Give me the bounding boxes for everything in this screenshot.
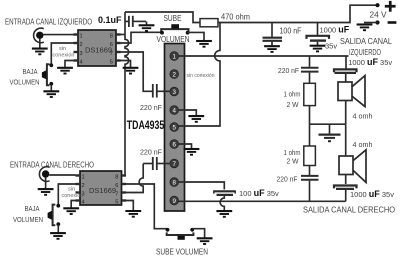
svg-text:0.1uF: 0.1uF xyxy=(98,15,122,25)
wire U2 pin5 to ground xyxy=(116,61,131,68)
wire U2 pin2 to BAJA switch xyxy=(51,43,74,64)
svg-text:ENTRADA CANAL DERECHO: ENTRADA CANAL DERECHO xyxy=(10,161,94,170)
svg-text:6: 6 xyxy=(115,183,118,189)
svg-text:TDA4935: TDA4935 xyxy=(127,120,165,132)
pushbutton SW2 SUBE VOLUMEN (top) xyxy=(160,24,189,34)
wire C1 to ground xyxy=(146,21,148,25)
label - xyxy=(388,21,397,24)
U2 pin numbers right 8 7 6 5 xyxy=(110,34,113,66)
svg-text:5: 5 xyxy=(115,200,118,206)
wire J2 to ground xyxy=(45,178,47,189)
svg-text:4: 4 xyxy=(82,200,85,206)
wire U2 pin4 to ground xyxy=(65,61,74,68)
wire U1 pin4 to ground xyxy=(179,110,197,116)
ground (SW2) xyxy=(196,41,212,47)
svg-text:8: 8 xyxy=(172,179,176,186)
capacitor C3 220 nF (left input) xyxy=(153,84,170,98)
svg-text:1: 1 xyxy=(82,175,85,181)
wire SW3 to ground xyxy=(57,225,59,233)
svg-text:2: 2 xyxy=(80,42,83,48)
wire SW2 to ground xyxy=(188,32,204,40)
svg-text:9: 9 xyxy=(172,198,176,205)
svg-text:DS1669: DS1669 xyxy=(85,48,112,55)
wire U3 pin5 to ground xyxy=(126,201,133,211)
wire LS2 to capacitor C11 xyxy=(345,175,347,185)
wire U1 pin8 to capacitor C9 xyxy=(179,182,225,190)
svg-text:5: 5 xyxy=(110,60,113,66)
ground (C9) xyxy=(216,211,232,217)
wire J1 to DS1 pin1 xyxy=(43,34,74,36)
ground (SW3) xyxy=(50,233,66,239)
ground (C5) xyxy=(310,46,326,52)
svg-text:7: 7 xyxy=(115,192,118,198)
svg-text:SALIDA CANAL DERECHO: SALIDA CANAL DERECHO xyxy=(303,206,395,215)
svg-text:7: 7 xyxy=(110,51,113,57)
U1 pin 7 xyxy=(170,159,179,168)
capacitor C6 220 nF (zobel left) xyxy=(301,56,319,83)
capacitor C5 1000 uF electrolytic xyxy=(307,36,330,41)
pushbutton SW4 SUBE VOLUMEN (bottom) xyxy=(166,228,195,240)
ground (C1) xyxy=(139,25,155,31)
U1 pin 8 xyxy=(170,178,179,187)
capacitor C10 220 nF (zobel right) xyxy=(301,176,319,201)
ground (U3 pin5) xyxy=(125,211,141,217)
svg-text:1000 uF: 1000 uF xyxy=(320,25,350,35)
svg-text:1000 uF 35v: 1000 uF 35v xyxy=(348,57,392,67)
svg-text:2: 2 xyxy=(172,71,176,78)
svg-text:2 W: 2 W xyxy=(287,157,300,166)
svg-text:7: 7 xyxy=(172,161,176,168)
ground (U3 pin4) xyxy=(63,208,79,214)
ground (SW1) xyxy=(43,91,59,97)
svg-text:220 nF: 220 nF xyxy=(277,175,298,184)
wire U3 pin2 to BAJA switch xyxy=(58,184,75,205)
wire node to ground xyxy=(329,124,331,134)
wire +24V branch to U1 pin5 with hop xyxy=(179,23,221,127)
digital potentiometer U2 DS1669 (top) xyxy=(74,30,121,66)
wire node down to speaker LS2 xyxy=(345,124,347,156)
svg-text:SUBE: SUBE xyxy=(164,14,182,23)
pushbutton SW1 BAJA VOLUMEN (top) xyxy=(42,63,53,85)
svg-text:1 ohm: 1 ohm xyxy=(284,90,301,99)
ground (jack J1) xyxy=(32,49,48,55)
svg-text:220 nF: 220 nF xyxy=(140,148,162,157)
wire U3 pin6 to SUBE switch xyxy=(122,184,167,229)
wire U1 pin9 output rail (right channel) xyxy=(179,200,346,202)
svg-text:4: 4 xyxy=(80,60,83,66)
wire R3 to capacitor C10 xyxy=(309,166,311,176)
wire SW4 to ground xyxy=(192,229,204,238)
svg-text:1: 1 xyxy=(172,53,176,60)
svg-text:VOLUMEN: VOLUMEN xyxy=(10,78,40,87)
ground (U2 pin5) xyxy=(123,68,139,74)
svg-text:IZQUIERDO: IZQUIERDO xyxy=(349,48,381,57)
svg-text:sin conexión: sin conexión xyxy=(187,73,215,79)
wire C8 down to U3 pin7 with hop xyxy=(122,164,144,193)
wire U1 pin7 to capacitor C8 xyxy=(157,163,170,165)
input jack J1 (left channel) xyxy=(34,28,44,43)
wire U1 pin6 to ground xyxy=(179,144,192,149)
U1 pin 4 xyxy=(170,106,179,115)
U1 pin 2 xyxy=(170,70,179,79)
node - terminal xyxy=(375,20,379,24)
speaker LS1 (left channel 4 ohm) xyxy=(338,76,365,107)
node speaker return (ground node) xyxy=(310,123,346,125)
svg-text:1: 1 xyxy=(80,34,83,40)
input jack J2 (right channel) xyxy=(39,167,49,182)
svg-text:4 omh: 4 omh xyxy=(353,112,373,121)
capacitor C8 220 nF (right input) xyxy=(143,157,157,170)
wire J2 to U3 pin1 xyxy=(49,174,75,176)
wire C9 to ground with hop over rail xyxy=(220,196,224,211)
wire R2 to speaker ground node xyxy=(309,106,311,125)
svg-text:BAJA: BAJA xyxy=(25,204,40,213)
ground (U1 pin6) xyxy=(184,149,200,155)
wire top rail to resistor R1 xyxy=(125,12,200,23)
wire U2 pin6 up to SUBE switch xyxy=(116,32,163,43)
svg-text:DS1669: DS1669 xyxy=(89,188,116,195)
svg-text:100 nF: 100 nF xyxy=(280,27,302,36)
svg-text:4: 4 xyxy=(172,107,176,114)
wire VCC net: U2 pin8 down to U3 pin8 with crossover hops xyxy=(122,12,129,176)
capacitor C4 100 nF xyxy=(263,38,283,41)
wire C4 to ground xyxy=(271,42,273,46)
wire LS1 to node xyxy=(345,101,347,125)
U1 pin 1 xyxy=(170,52,179,61)
U1 pin 6 xyxy=(170,140,179,149)
svg-text:VOLUMEN: VOLUMEN xyxy=(13,215,43,224)
svg-text:24 V: 24 V xyxy=(370,11,388,20)
svg-text:2 W: 2 W xyxy=(287,100,300,109)
ground (- terminal) xyxy=(357,25,373,31)
capacitor C7 1000 uF (left output) xyxy=(334,56,357,82)
svg-text:SALIDA CANAL: SALIDA CANAL xyxy=(340,37,392,46)
wire U2 pin7 to capacitor C3 xyxy=(116,52,152,91)
resistor R2 1 ohm 2W (zobel left) xyxy=(304,83,316,105)
resistor R1 470 ohm xyxy=(200,19,218,27)
svg-text:conexión: conexión xyxy=(53,53,75,59)
wire C5 to ground xyxy=(317,42,319,46)
wire U3 pin4 to ground xyxy=(71,201,75,209)
capacitor C1 0.1uF xyxy=(125,16,146,27)
wire node down to R3 (zobel right) xyxy=(309,124,311,146)
svg-text:8: 8 xyxy=(115,175,118,181)
wire SW1 to ground xyxy=(50,85,52,91)
svg-text:6: 6 xyxy=(172,141,176,148)
svg-text:conexión: conexión xyxy=(62,193,84,199)
svg-text:35v: 35v xyxy=(325,42,337,51)
resistor R3 1 ohm 2W (zobel right) xyxy=(304,146,316,166)
wire +24V rail xyxy=(218,5,378,22)
label BAJA VOLUMEN (bottom) xyxy=(13,204,43,224)
U1 pin 5 xyxy=(170,123,179,132)
svg-text:220 nF: 220 nF xyxy=(140,103,162,112)
node + terminal xyxy=(375,3,379,7)
wire U1 pin1 output (left channel) xyxy=(179,55,349,57)
U3 pin numbers left 1 2 3 4 xyxy=(82,175,85,206)
svg-text:1000 uF 35v: 1000 uF 35v xyxy=(350,189,394,199)
wire J1 to ground xyxy=(39,39,41,49)
svg-text:2: 2 xyxy=(82,183,85,189)
ground (speaker node) xyxy=(319,135,341,142)
ground (jack J2) xyxy=(38,189,54,195)
amplifier U1 TDA4935 xyxy=(165,44,185,212)
wire rail to capacitor C4 xyxy=(271,23,273,37)
svg-text:sin: sin xyxy=(68,187,75,193)
svg-text:3: 3 xyxy=(172,89,176,96)
ground (C4) xyxy=(264,46,280,52)
U2 pin numbers left 1 2 3 4 xyxy=(80,34,83,66)
speaker LS2 (right channel 4 ohm) xyxy=(339,150,366,183)
svg-text:4 omh: 4 omh xyxy=(353,140,373,149)
label BAJA VOLUMEN (top) xyxy=(10,67,40,87)
wire rail to capacitor C5 xyxy=(317,23,319,36)
svg-text:470 ohm: 470 ohm xyxy=(221,13,250,22)
ground (SW4) xyxy=(197,238,213,244)
U1 pin 9 xyxy=(170,196,179,205)
svg-text:220 nF: 220 nF xyxy=(278,66,299,75)
U3 pin numbers right 8 7 6 5 xyxy=(115,175,118,206)
capacitor C9 100 uF (bootstrap) xyxy=(214,191,236,195)
svg-text:8: 8 xyxy=(110,34,113,40)
label + xyxy=(385,1,396,12)
svg-text:6: 6 xyxy=(110,42,113,48)
svg-text:3: 3 xyxy=(80,51,83,57)
svg-text:SUBE VOLUMEN: SUBE VOLUMEN xyxy=(156,248,208,257)
pushbutton SW3 BAJA VOLUMEN (bottom) xyxy=(48,204,61,226)
svg-text:5: 5 xyxy=(172,124,176,131)
svg-text:ENTRADA CANAL IZQUIERDO: ENTRADA CANAL IZQUIERDO xyxy=(5,18,92,27)
ground (U2 pin4) xyxy=(57,68,73,74)
label sin conexion (U2) xyxy=(53,46,75,59)
digital potentiometer U3 DS1669 (bottom) xyxy=(76,171,127,205)
svg-text:100 uF 35v: 100 uF 35v xyxy=(239,188,279,198)
wire U2 pin8 to VCC net xyxy=(116,34,125,36)
label sin conexion (U3) xyxy=(62,187,84,200)
wire - terminal to ground xyxy=(364,22,378,24)
U1 pin 3 xyxy=(170,87,179,96)
capacitor C11 1000 uF (right output) xyxy=(334,186,357,202)
ground (U1 pin4) xyxy=(188,116,204,122)
svg-text:BAJA: BAJA xyxy=(23,67,38,76)
svg-text:sin: sin xyxy=(59,46,66,52)
